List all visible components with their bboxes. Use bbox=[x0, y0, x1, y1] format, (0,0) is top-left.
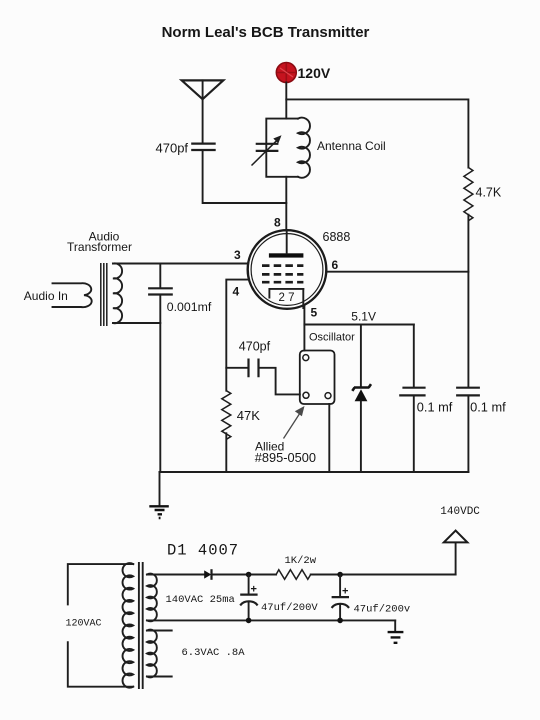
power transformer T2 bbox=[123, 563, 157, 688]
label 0.001mf bbox=[167, 300, 212, 314]
svg-text:4.7K: 4.7K bbox=[476, 186, 502, 200]
node: rectifier output bbox=[246, 572, 252, 578]
svg-text:D1 4007: D1 4007 bbox=[167, 542, 239, 560]
svg-text:140VAC 25ma: 140VAC 25ma bbox=[166, 594, 235, 606]
ground symbol (PSU) bbox=[388, 620, 404, 642]
svg-text:6888: 6888 bbox=[323, 230, 351, 244]
core bbox=[139, 563, 143, 688]
HV secondary winding bbox=[147, 574, 157, 622]
svg-text:8: 8 bbox=[274, 216, 281, 230]
wire: secondary bottom bbox=[113, 322, 160, 324]
svg-text:4: 4 bbox=[233, 285, 240, 299]
B+ 120V indicator lamp bbox=[276, 63, 296, 83]
antenna coil (tank) bbox=[266, 118, 310, 178]
core bbox=[101, 263, 107, 326]
svg-text:120VAC: 120VAC bbox=[66, 619, 102, 630]
secondary winding bbox=[113, 263, 122, 323]
tube V1 6888 envelope bbox=[248, 230, 327, 309]
label Audio In bbox=[24, 289, 68, 303]
svg-text:5: 5 bbox=[311, 306, 318, 320]
label 0.1 mf bbox=[417, 399, 453, 414]
audio transformer T1 bbox=[53, 263, 123, 326]
capacitor 0.1 mf (left) bbox=[400, 325, 424, 473]
svg-text:#895-0500: #895-0500 bbox=[255, 450, 316, 465]
svg-text:47uf/200v: 47uf/200v bbox=[354, 604, 411, 616]
ground symbol (signal) bbox=[149, 472, 169, 518]
pin 5 wire (cathode) bbox=[303, 289, 304, 351]
resistor 4.7K bbox=[464, 168, 473, 221]
capacitor 0.1 mf (right) bbox=[457, 388, 479, 472]
tube cathode box with pins 2 7 bbox=[269, 289, 303, 304]
svg-text:5.1V: 5.1V bbox=[351, 310, 376, 324]
svg-text:0.1 mf: 0.1 mf bbox=[470, 399, 506, 414]
capacitor 0.001mf bbox=[149, 264, 172, 473]
wire: antenna to 470pf bbox=[202, 99, 204, 143]
capacitor 47uf/200V (input) bbox=[241, 575, 257, 621]
svg-text:47uf/200V: 47uf/200V bbox=[261, 602, 318, 614]
wire diode to node bbox=[212, 574, 277, 576]
label 6888 bbox=[323, 230, 351, 244]
callout Allied #895-0500 bbox=[255, 406, 316, 465]
pin label 4 bbox=[233, 285, 240, 299]
label 47uf/200v bbox=[354, 604, 411, 616]
label Oscillator bbox=[309, 332, 355, 344]
tube grids (dashed) bbox=[262, 266, 303, 283]
5.1V rail bbox=[304, 324, 413, 326]
capacitor 47uf/200v (output) bbox=[332, 575, 348, 621]
svg-text:Antenna Coil: Antenna Coil bbox=[317, 139, 386, 153]
label 470pf bbox=[239, 340, 271, 354]
node: cap1 to rail bbox=[246, 618, 252, 624]
label 140VDC bbox=[440, 506, 480, 518]
pin label 8 bbox=[274, 216, 281, 230]
primary winding bbox=[53, 283, 92, 307]
label D1 4007 bbox=[167, 542, 239, 560]
pin 6 wire (to 4.7K node) bbox=[326, 271, 468, 273]
wire: 470pf to coil bottom node bbox=[203, 151, 287, 203]
resistor 1K/2W bbox=[276, 570, 311, 580]
label 47uf/200V bbox=[261, 602, 318, 614]
oscillator module (Allied #895-0500) bbox=[300, 351, 335, 405]
svg-text:470pf: 470pf bbox=[239, 340, 271, 354]
svg-text:Oscillator: Oscillator bbox=[309, 332, 355, 344]
label 4.7K bbox=[476, 186, 502, 200]
pin label 6 bbox=[332, 258, 339, 272]
pin label 5 bbox=[311, 306, 318, 320]
svg-text:120V: 120V bbox=[298, 65, 331, 81]
wire: 4.7K down to screen node and 0.1mf bbox=[467, 215, 469, 387]
ground bus (chassis) bbox=[160, 471, 469, 473]
label 120V bbox=[298, 65, 331, 81]
wire: top rail to 4.7K branch bbox=[286, 99, 468, 167]
svg-text:+: + bbox=[342, 586, 348, 598]
svg-text:0.001mf: 0.001mf bbox=[167, 300, 212, 314]
label 0.1 mf bbox=[470, 399, 506, 414]
pin 3 wire (grid to transformer) bbox=[113, 263, 248, 265]
HV wire to diode bbox=[147, 574, 204, 576]
label 470pf bbox=[156, 141, 189, 156]
label 120VAC bbox=[66, 619, 102, 630]
node: cap2 to rail bbox=[337, 618, 343, 624]
diode D1 (1N4007) bbox=[204, 570, 211, 578]
wire: coil bottom to tube plate pin 8 bbox=[285, 177, 287, 231]
title bbox=[162, 24, 370, 41]
svg-text:47K: 47K bbox=[237, 408, 260, 423]
capacitor 470pf (antenna coupling) bbox=[192, 144, 214, 150]
svg-text:140VDC: 140VDC bbox=[440, 506, 480, 518]
primary leads 120VAC bbox=[68, 564, 133, 687]
primary winding bbox=[123, 563, 134, 688]
svg-text:0.1 mf: 0.1 mf bbox=[417, 399, 453, 414]
pin 4 wire bbox=[226, 280, 249, 391]
svg-text:1K/2w: 1K/2w bbox=[285, 555, 317, 567]
wire: oscillator output down to ground rail bbox=[328, 404, 330, 472]
svg-text:6: 6 bbox=[332, 258, 339, 272]
label 1K/2w bbox=[285, 555, 317, 567]
svg-text:6.3VAC .8A: 6.3VAC .8A bbox=[182, 647, 246, 659]
zener diode 5.1V bbox=[352, 325, 371, 473]
label 140VAC 25ma bbox=[166, 594, 235, 606]
variable capacitor plates bbox=[252, 135, 282, 165]
svg-text:2 7: 2 7 bbox=[279, 292, 295, 304]
label 5.1V bbox=[351, 310, 376, 324]
label 47K bbox=[237, 408, 260, 423]
svg-text:Norm Leal's BCB Transmitter: Norm Leal's BCB Transmitter bbox=[162, 24, 370, 41]
svg-text:Transformer: Transformer bbox=[67, 240, 132, 254]
label Audio Transformer bbox=[67, 230, 132, 255]
label Antenna Coil bbox=[317, 139, 386, 153]
node: filter output bbox=[337, 572, 343, 578]
capacitor 470pf (oscillator coupling) bbox=[226, 360, 299, 395]
svg-text:Audio In: Audio In bbox=[24, 289, 68, 303]
140VDC output arrow bbox=[444, 531, 468, 575]
wire: lamp to top rail bbox=[285, 83, 287, 119]
wire resistor to output bbox=[311, 574, 456, 576]
tube plate bbox=[269, 230, 304, 257]
pin label 3 bbox=[234, 248, 241, 262]
svg-text:470pf: 470pf bbox=[156, 141, 189, 156]
LV secondary winding bbox=[147, 630, 157, 678]
resistor 47K bbox=[222, 391, 231, 472]
LV heater leads bbox=[147, 631, 172, 677]
svg-text:3: 3 bbox=[234, 248, 241, 262]
antenna bbox=[182, 80, 224, 99]
HV return rail bbox=[147, 619, 395, 621]
label 6.3VAC .8A bbox=[182, 647, 246, 659]
